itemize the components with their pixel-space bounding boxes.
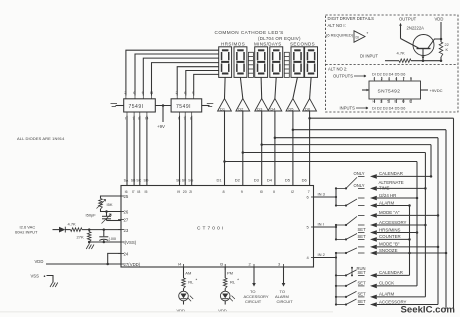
svg-text:VDD: VDD [35, 259, 44, 264]
svg-text:CALENDAR: CALENDAR [379, 270, 403, 275]
svg-text:VDD: VDD [435, 17, 444, 22]
wire: segment input to CT7001 [146, 116, 148, 186]
CT7001 right pin 5 [307, 225, 318, 230]
12.6 VAC 60Hz input label [15, 224, 38, 234]
wire: VDD to pin 27 [46, 263, 121, 265]
display digit DS2 (7-segment) [234, 47, 247, 78]
svg-text:+9V: +9V [157, 124, 165, 129]
momentary switch at row y=296.9 [335, 291, 365, 298]
svg-text:DI D2 D3 D4 D5 D6: DI D2 D3 D4 D5 D6 [372, 107, 405, 111]
svg-text:SNOOZE: SNOOZE [379, 248, 398, 253]
wire: display 5 cathode to driver D5 [293, 77, 298, 98]
svg-text:SET: SET [358, 281, 367, 286]
switch row: SNOOZE [370, 248, 446, 256]
CT7001 digit pin II (D4) [267, 177, 275, 194]
VDD label (detail) [435, 17, 444, 41]
svg-text:60Hz INPUT: 60Hz INPUT [15, 230, 38, 235]
svg-text:ALTERNATE: ALTERNATE [379, 180, 404, 185]
svg-text:SB: SB [131, 178, 136, 182]
(scan artifact line) [0, 311, 333, 312]
wire: segment input to CT7001 [133, 116, 135, 186]
svg-text:D2: D2 [238, 106, 244, 111]
wire: D1 strobe to switch column [225, 161, 418, 163]
svg-text:9: 9 [241, 190, 243, 194]
wire: display 6 cathode to driver D6 [310, 77, 312, 98]
svg-text:8: 8 [394, 100, 396, 104]
resistor R1 15K oscillator feedback [97, 196, 122, 212]
switch row: CALENDAR [358, 270, 410, 278]
PM indicator leg on pin [225, 267, 233, 278]
svg-text:IN I: IN I [318, 222, 324, 227]
CT7001 bottom pin 2 [249, 261, 255, 270]
wire: left 75491 side pin [116, 105, 124, 107]
svg-text:4.7K: 4.7K [397, 51, 406, 56]
CT7001 pin 20 (SF) [182, 178, 187, 194]
U3 bottom pin numbers 1 7 8 [178, 112, 193, 121]
switch row: COUNTER [358, 234, 410, 242]
output arrow: to ACCESSORY circuit [244, 267, 269, 304]
wire IN2 from pin 4 [314, 252, 336, 257]
svg-text:+9VDC: +9VDC [430, 88, 443, 93]
svg-text:SECONDS: SECONDS [290, 41, 315, 46]
svg-text:2N2222A: 2N2222A [407, 26, 425, 31]
junction on column aux [408, 204, 411, 207]
svg-text:2I: 2I [189, 190, 192, 194]
wire: display 3 cathode to driver D3 [260, 77, 263, 98]
svg-text:DI D2 D3 D4 D5 D6: DI D2 D3 D4 D5 D6 [372, 73, 405, 77]
selector switch S1 [336, 176, 365, 189]
wire: switch-matrix column D1 vertical [416, 162, 418, 286]
svg-text:I2: I2 [291, 190, 294, 194]
svg-text:3: 3 [380, 100, 382, 104]
CT7001 pin 2I (SG) [188, 178, 193, 194]
svg-text:I4: I4 [373, 100, 376, 104]
svg-text:I6: I6 [125, 190, 128, 194]
driver IC U3 75491 (right) [171, 99, 202, 112]
wire: display 2 cathode to driver D2 [240, 77, 242, 98]
ground below 27K [88, 242, 90, 245]
junction: emitter/rail [422, 59, 425, 62]
display digit DS6 (7-segment) [305, 47, 318, 78]
wire: D1 drive line down to CT7001 pin [224, 111, 226, 186]
U2 top pin numbers 2 6 9 13 [124, 90, 154, 99]
svg-text:I: I [125, 116, 126, 121]
CT7001 pin I6 (SA) [124, 178, 129, 194]
svg-text:I5: I5 [145, 190, 148, 194]
wire: display 1 cathode to driver D1 [224, 77, 227, 98]
svg-text:20: 20 [183, 190, 187, 194]
svg-text:TIME: TIME [379, 185, 390, 190]
wire: 60Hz input to pin 23 [82, 229, 121, 231]
svg-text:8: 8 [223, 190, 225, 194]
switch row: ALTERNATE TIME [354, 180, 426, 191]
switch row: ACCESSORY [358, 299, 439, 307]
resistor RL* for AM LED [182, 278, 198, 289]
resistor RL* for PM LED [223, 278, 239, 289]
svg-text:24: 24 [124, 252, 129, 257]
wire: D2 drive line down to CT7001 pin [242, 111, 244, 186]
junction: VDD/pin24 branch [106, 263, 109, 266]
svg-text:IN 2: IN 2 [318, 252, 326, 257]
selector switch S2 [336, 198, 365, 207]
wire: emitter rail [411, 60, 441, 62]
output arrow: to ALARM circuit [275, 267, 293, 304]
driver IC U4 SN75492 [369, 81, 421, 99]
svg-text:ACCESSORY: ACCESSORY [379, 299, 407, 304]
INPUTS label [340, 106, 369, 111]
wire: D4 strobe to switch column [275, 137, 438, 139]
wire: right 75491 side pin [202, 105, 210, 107]
ground ticks right of U3 [207, 104, 214, 107]
digit driver D5 (triangle buffer) [286, 99, 300, 112]
junction: D3 strobe tap [260, 143, 263, 146]
svg-text:27K: 27K [77, 234, 84, 239]
switch row: ACCESSORY [370, 220, 425, 228]
U2 bottom pin numbers 1 7 8 14 [125, 112, 149, 121]
selector switch S4 [336, 233, 365, 241]
junction: VSS/27K [88, 241, 91, 244]
svg-text:D6: D6 [305, 106, 311, 111]
wire: segment drive line 2 from 75491 to display [135, 54, 219, 96]
switch row: MODE B [370, 242, 438, 250]
wire: segment drive line 6 from 75491 to display [186, 71, 219, 96]
svg-text:I2: I2 [409, 100, 412, 104]
CT7001 left pin I(VSS) [118, 240, 137, 245]
junction on column D4 [437, 246, 440, 249]
selector switch S3 [336, 215, 365, 226]
svg-text:ONLY: ONLY [354, 171, 365, 176]
momentary switch at row y=275.4 [335, 270, 365, 277]
wire: switch-matrix column D3 vertical [430, 145, 432, 177]
svg-text:C T 7 0 0 I: C T 7 0 0 I [197, 226, 224, 232]
svg-text:ALL DIODES ARE 1N914: ALL DIODES ARE 1N914 [17, 136, 65, 141]
svg-text:ACCESSORY: ACCESSORY [379, 220, 407, 225]
svg-text:VSS: VSS [31, 274, 40, 279]
CT7001 right pin 6 [307, 195, 318, 200]
wire: D4 drive line down to CT7001 pin [274, 111, 276, 186]
junction on column D5 [445, 252, 448, 255]
VDD label under AM LED [177, 301, 186, 313]
svg-text:I8: I8 [137, 190, 140, 194]
svg-text:(DL704 OR EQUIV): (DL704 OR EQUIV) [258, 36, 301, 41]
svg-text:ALARM: ALARM [379, 292, 394, 297]
CT7001 digit pin I0 (D3) [254, 177, 263, 194]
svg-text:25: 25 [124, 194, 129, 199]
SN75492 right pin +9VDC [421, 88, 443, 93]
svg-text:MODE "A": MODE "A" [379, 210, 400, 215]
wire: VSS stub [47, 276, 54, 283]
svg-text:SG: SG [188, 178, 193, 182]
svg-text:SE: SE [176, 178, 181, 182]
svg-text:I0: I0 [402, 100, 405, 104]
CT7001 left pin 27(VDD) [118, 262, 141, 267]
CT7001 digit pin 7 (D6) [302, 177, 310, 194]
switch row: ALARM [358, 292, 426, 300]
svg-text:HRS/MINS: HRS/MINS [379, 227, 401, 232]
svg-text:AM: AM [185, 270, 191, 275]
svg-text:PM: PM [227, 270, 233, 275]
junction: 27K top [88, 228, 91, 231]
svg-text:(6 REQUIRED): (6 REQUIRED) [326, 33, 354, 38]
svg-text:SeekIC.com: SeekIC.com [401, 305, 455, 316]
wire: segment input to CT7001 [139, 116, 141, 186]
svg-text:HRS/MOS: HRS/MOS [221, 41, 245, 46]
LED AM [179, 289, 194, 302]
colon separator ladder 2 (between mins and secs) [284, 52, 289, 77]
ground at VSS [50, 283, 58, 288]
svg-text:*: * [367, 31, 369, 36]
output pin numbers [374, 77, 413, 81]
svg-text:ALARM: ALARM [379, 200, 394, 205]
CT7001 right pin 4 [307, 255, 318, 260]
svg-text:I(VSS): I(VSS) [124, 240, 137, 245]
svg-text:ALT NO I:: ALT NO I: [328, 23, 346, 28]
CT7001 left pin 27 [118, 218, 129, 223]
junction on column D1 [416, 197, 419, 200]
wire: D6 drive line down to CT7001 pin [309, 111, 311, 186]
RUN switch [351, 266, 366, 277]
title: digit driver details alt no 1 [328, 16, 375, 28]
svg-text:*: * [237, 278, 239, 283]
wire: +9V stub [162, 106, 164, 123]
svg-text:SF: SF [182, 178, 186, 182]
CT7001 pin I8 (SC) [136, 178, 141, 194]
CT7001 digit pin I2 (D5) [285, 177, 294, 194]
svg-text:DIGIT DRIVER DETAILS: DIGIT DRIVER DETAILS [328, 16, 375, 21]
svg-text:7: 7 [308, 190, 310, 194]
svg-text:D4: D4 [267, 177, 273, 182]
capacitor C2 .001 [99, 230, 116, 242]
svg-text:RL: RL [230, 280, 236, 285]
svg-text:I2.6 VAC: I2.6 VAC [20, 224, 36, 229]
CT7001 digit pin 9 (D2) [235, 177, 243, 194]
CT7001 pin I9 (SE) [176, 178, 181, 194]
wire: between 75491s [155, 105, 171, 107]
driver IC U2 75491 (left) [124, 99, 156, 112]
CT7001 left pin 25 [118, 194, 129, 199]
digit driver D2 (triangle buffer) [236, 99, 250, 112]
svg-text:Di: Di [356, 35, 360, 39]
junction: D4 strobe tap [274, 136, 277, 139]
switch row: CLOCK [358, 281, 418, 289]
wire: branch to pin 24 [108, 253, 121, 264]
junction: .001 top [103, 228, 106, 231]
display digit DS4 (7-segment) [270, 47, 283, 78]
resistor R5 22K [439, 39, 449, 61]
junction on column aux [408, 238, 411, 241]
title alt no 2 outputs [328, 67, 366, 79]
svg-text:I50pF: I50pF [86, 213, 97, 218]
switch row: MODE A [370, 210, 438, 218]
wire: D6 strobe to switch column [310, 117, 454, 119]
resistor R4 4.7K (base) [385, 51, 411, 63]
main IC U1 CT7001 [121, 186, 314, 268]
svg-text:ONLY: ONLY [354, 183, 365, 188]
junction: rail/22K [440, 59, 443, 62]
svg-text:CLOCK: CLOCK [379, 281, 394, 286]
CT7001 digit pin 8 (D1) [217, 177, 225, 194]
wire: segment drive line 4 from 75491 to display [152, 63, 219, 96]
svg-text:SN75492: SN75492 [378, 89, 401, 95]
junction: D2 strobe tap [242, 151, 245, 154]
momentary switch at row y=304.5 [335, 299, 365, 306]
svg-text:7549I: 7549I [176, 104, 191, 110]
bus IN3 group [335, 187, 337, 206]
svg-text:D1: D1 [217, 177, 223, 182]
wire: D5 strobe to switch column [293, 129, 446, 131]
wire: segment drive line 3 from 75491 to display [143, 58, 219, 95]
svg-text:23: 23 [124, 228, 129, 233]
svg-text:I5K: I5K [107, 202, 113, 207]
svg-text:I0: I0 [260, 190, 263, 194]
switch row: I2/24 HR [370, 193, 417, 201]
svg-text:5: 5 [387, 100, 389, 104]
svg-text:27(VDD): 27(VDD) [124, 262, 141, 267]
U3 top pin numbers 2 6 9 [176, 90, 196, 99]
svg-text:CIRCUIT: CIRCUIT [245, 299, 262, 304]
CT7001 pin I5 (SD) [144, 178, 149, 194]
svg-text:SA: SA [124, 178, 129, 182]
LED PM [220, 289, 235, 302]
svg-text:22: 22 [445, 43, 449, 47]
switch row: HRS/MINS [358, 227, 418, 235]
svg-text:SET: SET [358, 234, 367, 239]
display digit DS3 (7-segment) [255, 47, 268, 78]
svg-text:4.7K: 4.7K [68, 222, 77, 227]
display digit DS1 (7-segment) [219, 47, 232, 78]
svg-text:INPUTS: INPUTS [340, 106, 356, 111]
wire: segment input to CT7001 [191, 116, 193, 186]
CT7001 bottom pin 3 [278, 261, 284, 270]
momentary switch at row y=285.9 [335, 280, 365, 287]
display digit DS5 (7-segment) [291, 47, 304, 78]
junction on column D1 [416, 231, 419, 234]
wire: VSS pin 1 line [89, 241, 121, 243]
wire: display 4 cathode to driver D4 [275, 77, 276, 98]
switch row: CALENDAR [354, 171, 432, 179]
svg-text:SC: SC [136, 178, 141, 182]
svg-text:SET: SET [358, 299, 367, 304]
junction on column D3 [430, 175, 433, 178]
svg-text:D6: D6 [302, 177, 308, 182]
dashed separator [326, 64, 459, 66]
svg-text:DI INPUT: DI INPUT [360, 54, 378, 59]
CT7001 left pin 26 [118, 210, 129, 215]
wire: switch-matrix column aux vertical [409, 206, 411, 276]
svg-text:D5: D5 [288, 106, 294, 111]
wire: switch-matrix column D5 vertical [445, 130, 447, 309]
svg-text:I9: I9 [177, 190, 180, 194]
resistor R2 4.7K [65, 222, 82, 232]
svg-text:IN 3: IN 3 [318, 192, 326, 197]
wire: segment input to CT7001 [179, 116, 181, 186]
wire: D5 drive line down to CT7001 pin [292, 111, 294, 186]
svg-text:26: 26 [124, 210, 129, 215]
OUTPUT label and arrow [399, 17, 417, 39]
svg-text:I: I [178, 116, 179, 121]
colon separator ladder 1 (between hrs and mins) [248, 52, 253, 77]
junction: D5 strobe tap [292, 128, 295, 131]
svg-text:MODE "B": MODE "B" [379, 242, 400, 247]
digit driver D6 (triangle buffer) [303, 99, 317, 112]
junction: +9V node [162, 104, 165, 107]
svg-text:SET: SET [358, 292, 367, 297]
junction: D1 strobe tap [223, 160, 226, 163]
bus IN1 group [335, 224, 337, 241]
junction on column D2 [424, 224, 427, 227]
wire: D2 strobe to switch column [243, 152, 426, 154]
svg-text:(.00I: (.00I [109, 237, 117, 241]
svg-text:RUN: RUN [357, 266, 366, 271]
svg-text:OUTPUT: OUTPUT [399, 17, 417, 22]
junction on column D2 [424, 187, 427, 190]
wire: D3 strobe to switch column [262, 144, 431, 146]
selector switch S5 [336, 247, 365, 254]
junction: D6 strobe tap [308, 117, 311, 120]
diode D7 1N914 input [53, 227, 66, 233]
junction on column aux [408, 252, 411, 255]
wire: switch-matrix column D4 vertical [437, 138, 439, 305]
wire: D3 drive line down to CT7001 pin [261, 111, 263, 186]
bus IN2 group [335, 252, 337, 305]
wire IN3 from pin 6 [314, 192, 336, 197]
svg-text:ALT NO 2:: ALT NO 2: [328, 67, 347, 72]
junction: VSS/.001 [103, 241, 106, 244]
switch row: ALARM [370, 200, 410, 208]
CT7001 left pin 24 [118, 252, 129, 257]
VDD label under PM LED [218, 301, 227, 313]
svg-text:RL: RL [188, 280, 194, 285]
wire: segment drive line 7 from 75491 to display [194, 74, 219, 95]
wire IN1 from pin 5 [314, 222, 336, 227]
wire: segment input to CT7001 [184, 116, 186, 186]
svg-text:OUTPUTS: OUTPUTS [333, 74, 353, 79]
svg-text:D5: D5 [285, 177, 291, 182]
svg-text:COUNTER: COUNTER [379, 234, 401, 239]
svg-text:I2/24 HR: I2/24 HR [379, 193, 396, 198]
transistor Q1 2N2222A [401, 26, 442, 61]
svg-text:27: 27 [124, 218, 129, 223]
CT7001 bottom pin I4 [178, 261, 184, 270]
input pin numbers [373, 99, 412, 104]
digit driver D3 (triangle buffer) [255, 99, 269, 112]
digit driver D1 (triangle buffer) [218, 99, 232, 112]
svg-text:CIRCUIT: CIRCUIT [277, 299, 294, 304]
wire: segment input to CT7001 [126, 116, 128, 186]
svg-text:SD: SD [144, 178, 149, 182]
AM indicator leg on pin [184, 267, 192, 278]
svg-text:I7: I7 [132, 190, 135, 194]
wire: segment drive line 1 from 75491 to display [126, 50, 219, 95]
CT7001 bottom pin I3 [220, 261, 226, 270]
svg-text:7549I: 7549I [129, 104, 144, 110]
svg-text:COMMON CATHODE LED'S: COMMON CATHODE LED'S [215, 30, 284, 35]
svg-text:II: II [273, 190, 275, 194]
junction on column D4 [437, 214, 440, 217]
capacitor C1 150pF trimmer [86, 210, 122, 223]
svg-text:*: * [196, 278, 198, 283]
resistor R3 27K [77, 230, 92, 242]
CT7001 left pin 23 [118, 228, 129, 233]
svg-text:SET: SET [358, 227, 367, 232]
wire: segment drive line 5 from 75491 to display [177, 67, 219, 96]
svg-text:D3: D3 [254, 177, 260, 182]
svg-text:D4: D4 [270, 106, 276, 111]
wire: switch-matrix column D2 vertical [424, 153, 426, 297]
svg-text:D2: D2 [235, 177, 241, 182]
digit driver D4 (triangle buffer) [268, 99, 282, 112]
triangle Di symbol [354, 31, 369, 42]
